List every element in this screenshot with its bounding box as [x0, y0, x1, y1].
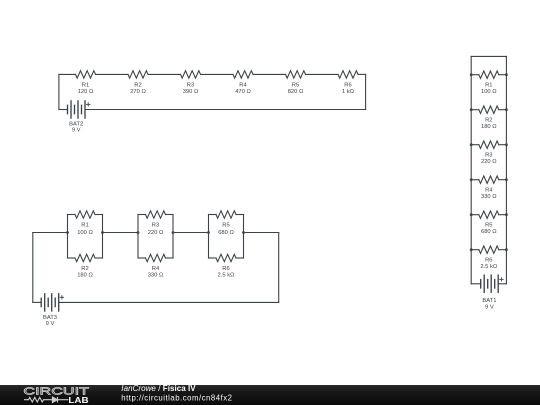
wire pair 2 left stub — [137, 215, 139, 259]
wire top wire segment — [306, 73, 339, 75]
battery BAT1 — [481, 275, 499, 292]
wire top wire segment — [96, 73, 129, 75]
node junction dot right R6 — [505, 248, 508, 251]
wire main segment between pairs — [173, 232, 209, 234]
resistor R1 (top series circuit) — [76, 71, 96, 78]
resistor R4 (parallel ladder circuit) — [479, 176, 499, 183]
wire main segment after pair 3 — [244, 232, 279, 234]
resistor R2 (parallel pair circuit) — [75, 254, 95, 261]
plus sign BAT3 — [60, 296, 63, 299]
node junction dot right R1 — [505, 73, 508, 76]
node junction dot right R2 — [505, 108, 508, 111]
wire pair 3 top rail left — [209, 214, 217, 216]
wire row R1 left lead — [471, 74, 479, 76]
resistor R3 (parallel ladder circuit) — [479, 141, 499, 148]
wire top-left circuit: left rail — [58, 74, 60, 109]
wire row R2 left lead — [471, 109, 479, 111]
wire pair 2 top rail right — [166, 214, 174, 216]
node junction dot right R4 — [505, 178, 508, 181]
wire main segment between pairs — [103, 232, 139, 234]
wire pair 1 bottom rail left — [68, 257, 76, 259]
wire row R5 right lead — [499, 214, 507, 216]
resistor R6 (top series circuit) — [338, 71, 358, 78]
node junction dot left R1 — [470, 73, 473, 76]
wire row R6 left lead — [471, 249, 479, 251]
wire row R4 left lead — [471, 179, 479, 181]
svg-text:LAB: LAB — [68, 395, 88, 405]
node junction dot left R4 — [470, 178, 473, 181]
node junction dot left pair 3 — [207, 231, 210, 234]
wire pair 1 top rail right — [95, 214, 103, 216]
plus sign BAT2 — [87, 103, 90, 106]
wire right circuit: left rail — [470, 56, 472, 283]
wire row R2 right lead — [499, 109, 507, 111]
node junction dot right R3 — [505, 143, 508, 146]
node junction dot left R5 — [470, 213, 473, 216]
wire battery BAT1 right stub — [498, 283, 506, 285]
resistor R4 (parallel pair circuit) — [146, 254, 166, 261]
wire main segment to pair 1 — [33, 232, 68, 234]
wire right circuit: right rail — [505, 56, 507, 283]
resistor R6 (parallel ladder circuit) — [479, 246, 499, 253]
wire top-left circuit: bottom wire — [85, 109, 366, 111]
resistor R1 (parallel pair circuit) — [75, 211, 95, 218]
wire row R5 left lead — [471, 214, 479, 216]
wire right circuit: top wire — [471, 55, 506, 57]
wire pair 3 left stub — [208, 215, 210, 259]
wire top wire segment after R6 — [358, 73, 366, 75]
wire pair 2 right stub — [172, 215, 174, 259]
node junction dot right R5 — [505, 213, 508, 216]
wire battery BAT3 left stub — [33, 301, 41, 303]
wire row R4 right lead — [499, 179, 507, 181]
wire row R1 right lead — [499, 74, 507, 76]
wire pair 2 top rail left — [138, 214, 146, 216]
resistor R5 (parallel pair circuit) — [216, 211, 236, 218]
wire bottom-left circuit: right rail — [278, 233, 280, 303]
wire battery BAT1 left stub — [471, 283, 481, 285]
node junction dot left R6 — [470, 248, 473, 251]
wire row R6 right lead — [499, 249, 507, 251]
svg-text:http://circuitlab.com/cn84fx2: http://circuitlab.com/cn84fx2 — [121, 393, 232, 402]
wire bottom-left circuit: left rail — [32, 233, 34, 303]
svg-text:IanCrowe / Física IV: IanCrowe / Física IV — [121, 384, 196, 393]
resistor R2 (top series circuit) — [128, 71, 148, 78]
wire pair 1 right stub — [102, 215, 104, 259]
node junction dot left pair 1 — [66, 231, 69, 234]
node junction dot left R3 — [470, 143, 473, 146]
wire pair 3 bottom rail right — [236, 257, 244, 259]
resistor R1 (parallel ladder circuit) — [479, 71, 499, 78]
battery BAT2 — [68, 101, 86, 118]
wire bottom-left circuit: bottom wire — [59, 301, 279, 303]
wire pair 3 top rail right — [236, 214, 244, 216]
wire top wire segment — [148, 73, 181, 75]
resistor R5 (parallel ladder circuit) — [479, 211, 499, 218]
wire pair 1 bottom rail right — [95, 257, 103, 259]
resistor R3 (top series circuit) — [181, 71, 201, 78]
wire top-left circuit: top wire segment before R1 — [59, 73, 76, 75]
wire pair 3 bottom rail left — [209, 257, 217, 259]
wire pair 2 bottom rail left — [138, 257, 146, 259]
wire pair 2 bottom rail right — [166, 257, 174, 259]
logo resistor zigzag — [24, 397, 52, 402]
footer black bar — [0, 385, 540, 405]
wire pair 1 top rail left — [68, 214, 76, 216]
node junction dot left R2 — [470, 108, 473, 111]
resistor R4 (top series circuit) — [233, 71, 253, 78]
node junction dot left pair 2 — [137, 231, 140, 234]
wire top wire segment — [253, 73, 286, 75]
resistor R5 (top series circuit) — [286, 71, 306, 78]
logo diode — [52, 397, 68, 403]
wire pair 1 left stub — [67, 215, 69, 259]
resistor R6 (parallel pair circuit) — [216, 254, 236, 261]
plus sign BAT1 — [500, 278, 503, 281]
wire top wire segment — [201, 73, 234, 75]
wire battery BAT2 left stub — [59, 109, 68, 111]
resistor R2 (parallel ladder circuit) — [479, 106, 499, 113]
wire row R3 left lead — [471, 144, 479, 146]
wire pair 3 right stub — [243, 215, 245, 259]
node junction dot right pair 2 — [172, 231, 175, 234]
node junction dot right pair 1 — [101, 231, 104, 234]
wire row R3 right lead — [499, 144, 507, 146]
node junction dot right pair 3 — [242, 231, 245, 234]
resistor R3 (parallel pair circuit) — [146, 211, 166, 218]
battery BAT3 — [41, 294, 59, 311]
wire top-left circuit: right rail — [365, 74, 367, 109]
